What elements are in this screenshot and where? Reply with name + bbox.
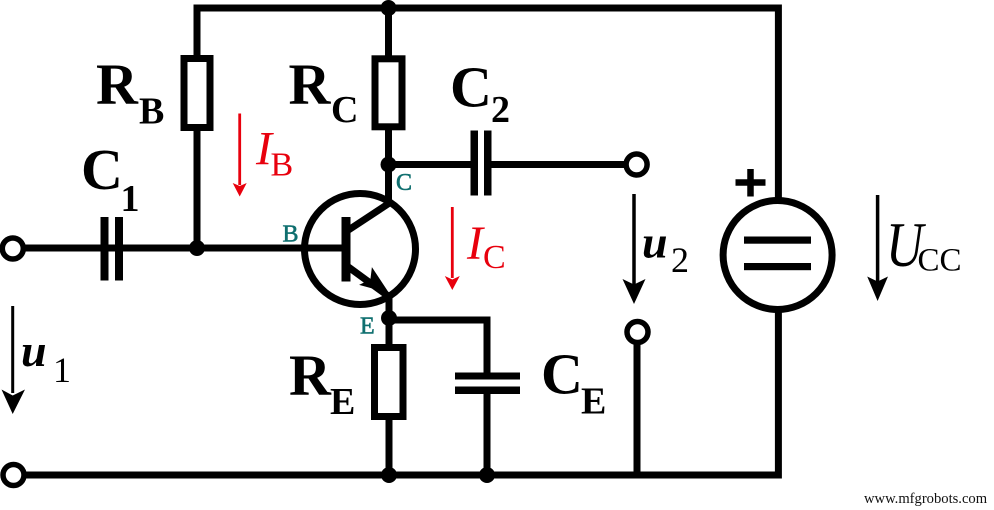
label pin B teal [283, 222, 299, 248]
label C_2 [450, 55, 510, 132]
transistor Q1 circle [305, 194, 416, 305]
svg-text:B: B [283, 222, 299, 248]
DC source U_CC circle [723, 201, 832, 310]
terminal input left [2, 238, 23, 259]
resistor R_C [375, 59, 402, 127]
svg-text:C: C [331, 89, 358, 131]
wire collector node to C2 left plate [389, 161, 473, 168]
label R_E [289, 343, 355, 424]
wire R_C bottom to collector [385, 127, 392, 206]
svg-text:1: 1 [53, 350, 71, 390]
svg-text:www.mfgrobots.com: www.mfgrobots.com [864, 491, 988, 507]
node collector junction dot [381, 157, 397, 173]
node B junction dot [189, 240, 205, 256]
svg-text:E: E [360, 314, 375, 340]
DC source plus sign [736, 169, 766, 197]
svg-text:E: E [581, 381, 606, 423]
wire R_C top stub [385, 5, 392, 61]
transistor collector diagonal [347, 202, 391, 231]
label I_C red [466, 217, 506, 276]
node E junction dot [381, 310, 397, 326]
wire base from input terminal to transistor [23, 245, 346, 252]
resistor R_B [184, 59, 210, 128]
wire emitter vertical [386, 294, 393, 348]
DC source bars [744, 237, 811, 271]
wire C_E bottom to ground rail [484, 393, 491, 478]
wire u2 lower terminal to ground rail [634, 342, 641, 475]
svg-text:E: E [330, 381, 355, 423]
watermark [864, 491, 988, 507]
svg-text:u: u [21, 325, 47, 376]
svg-text:2: 2 [491, 89, 510, 131]
arrow u1 [2, 306, 26, 414]
label U_CC [886, 209, 962, 281]
svg-text:B: B [271, 147, 294, 184]
capacitor C1 [101, 217, 124, 281]
transistor base bar [342, 217, 351, 282]
svg-text:C: C [483, 239, 506, 276]
svg-text:R: R [289, 343, 332, 408]
svg-text:C: C [450, 55, 492, 120]
wire R_B bottom to base node [194, 128, 201, 251]
wire top rail and right vertical down to DC source [197, 8, 778, 198]
label C_1 [81, 137, 140, 220]
node top rail junction [381, 0, 397, 16]
terminal bottom left [3, 465, 24, 486]
svg-text:B: B [139, 91, 164, 133]
node C_E ground junction dot [479, 467, 495, 483]
label R_B [96, 52, 164, 133]
label u_2 [642, 217, 689, 281]
arrow u2 [623, 194, 646, 304]
label pin C teal [396, 170, 412, 196]
arrow I_C red [445, 207, 460, 290]
terminal output upper [626, 154, 647, 175]
capacitor C_E [455, 373, 520, 395]
svg-text:CC: CC [918, 243, 962, 279]
svg-text:R: R [96, 52, 139, 117]
wire C2 right plate to output terminal [490, 161, 627, 168]
capacitor C2 [471, 131, 492, 196]
arrow U_CC [867, 195, 888, 301]
resistor R_E [375, 348, 404, 417]
wire R_B top (part of rail corner) [194, 55, 201, 60]
svg-text:C: C [81, 137, 123, 202]
transistor emitter diagonal [347, 266, 390, 297]
label C_E [541, 342, 606, 423]
label I_B red [255, 123, 293, 184]
wire bottom rail [24, 312, 778, 475]
svg-text:2: 2 [671, 240, 689, 280]
label pin E teal [360, 314, 375, 340]
arrow I_B red [233, 114, 247, 197]
transistor emitter arrowhead [359, 267, 389, 293]
node R_E ground junction dot [381, 467, 397, 483]
label R_C [289, 52, 359, 132]
svg-text:C: C [396, 170, 412, 196]
label u_1 [21, 325, 71, 390]
svg-text:u: u [642, 217, 668, 268]
svg-text:R: R [289, 52, 332, 117]
svg-text:C: C [541, 342, 583, 407]
wire emitter node to C_E top [389, 320, 487, 374]
svg-text:1: 1 [121, 178, 140, 220]
terminal output lower [627, 322, 648, 343]
wire R_E bottom to ground rail [386, 419, 393, 478]
